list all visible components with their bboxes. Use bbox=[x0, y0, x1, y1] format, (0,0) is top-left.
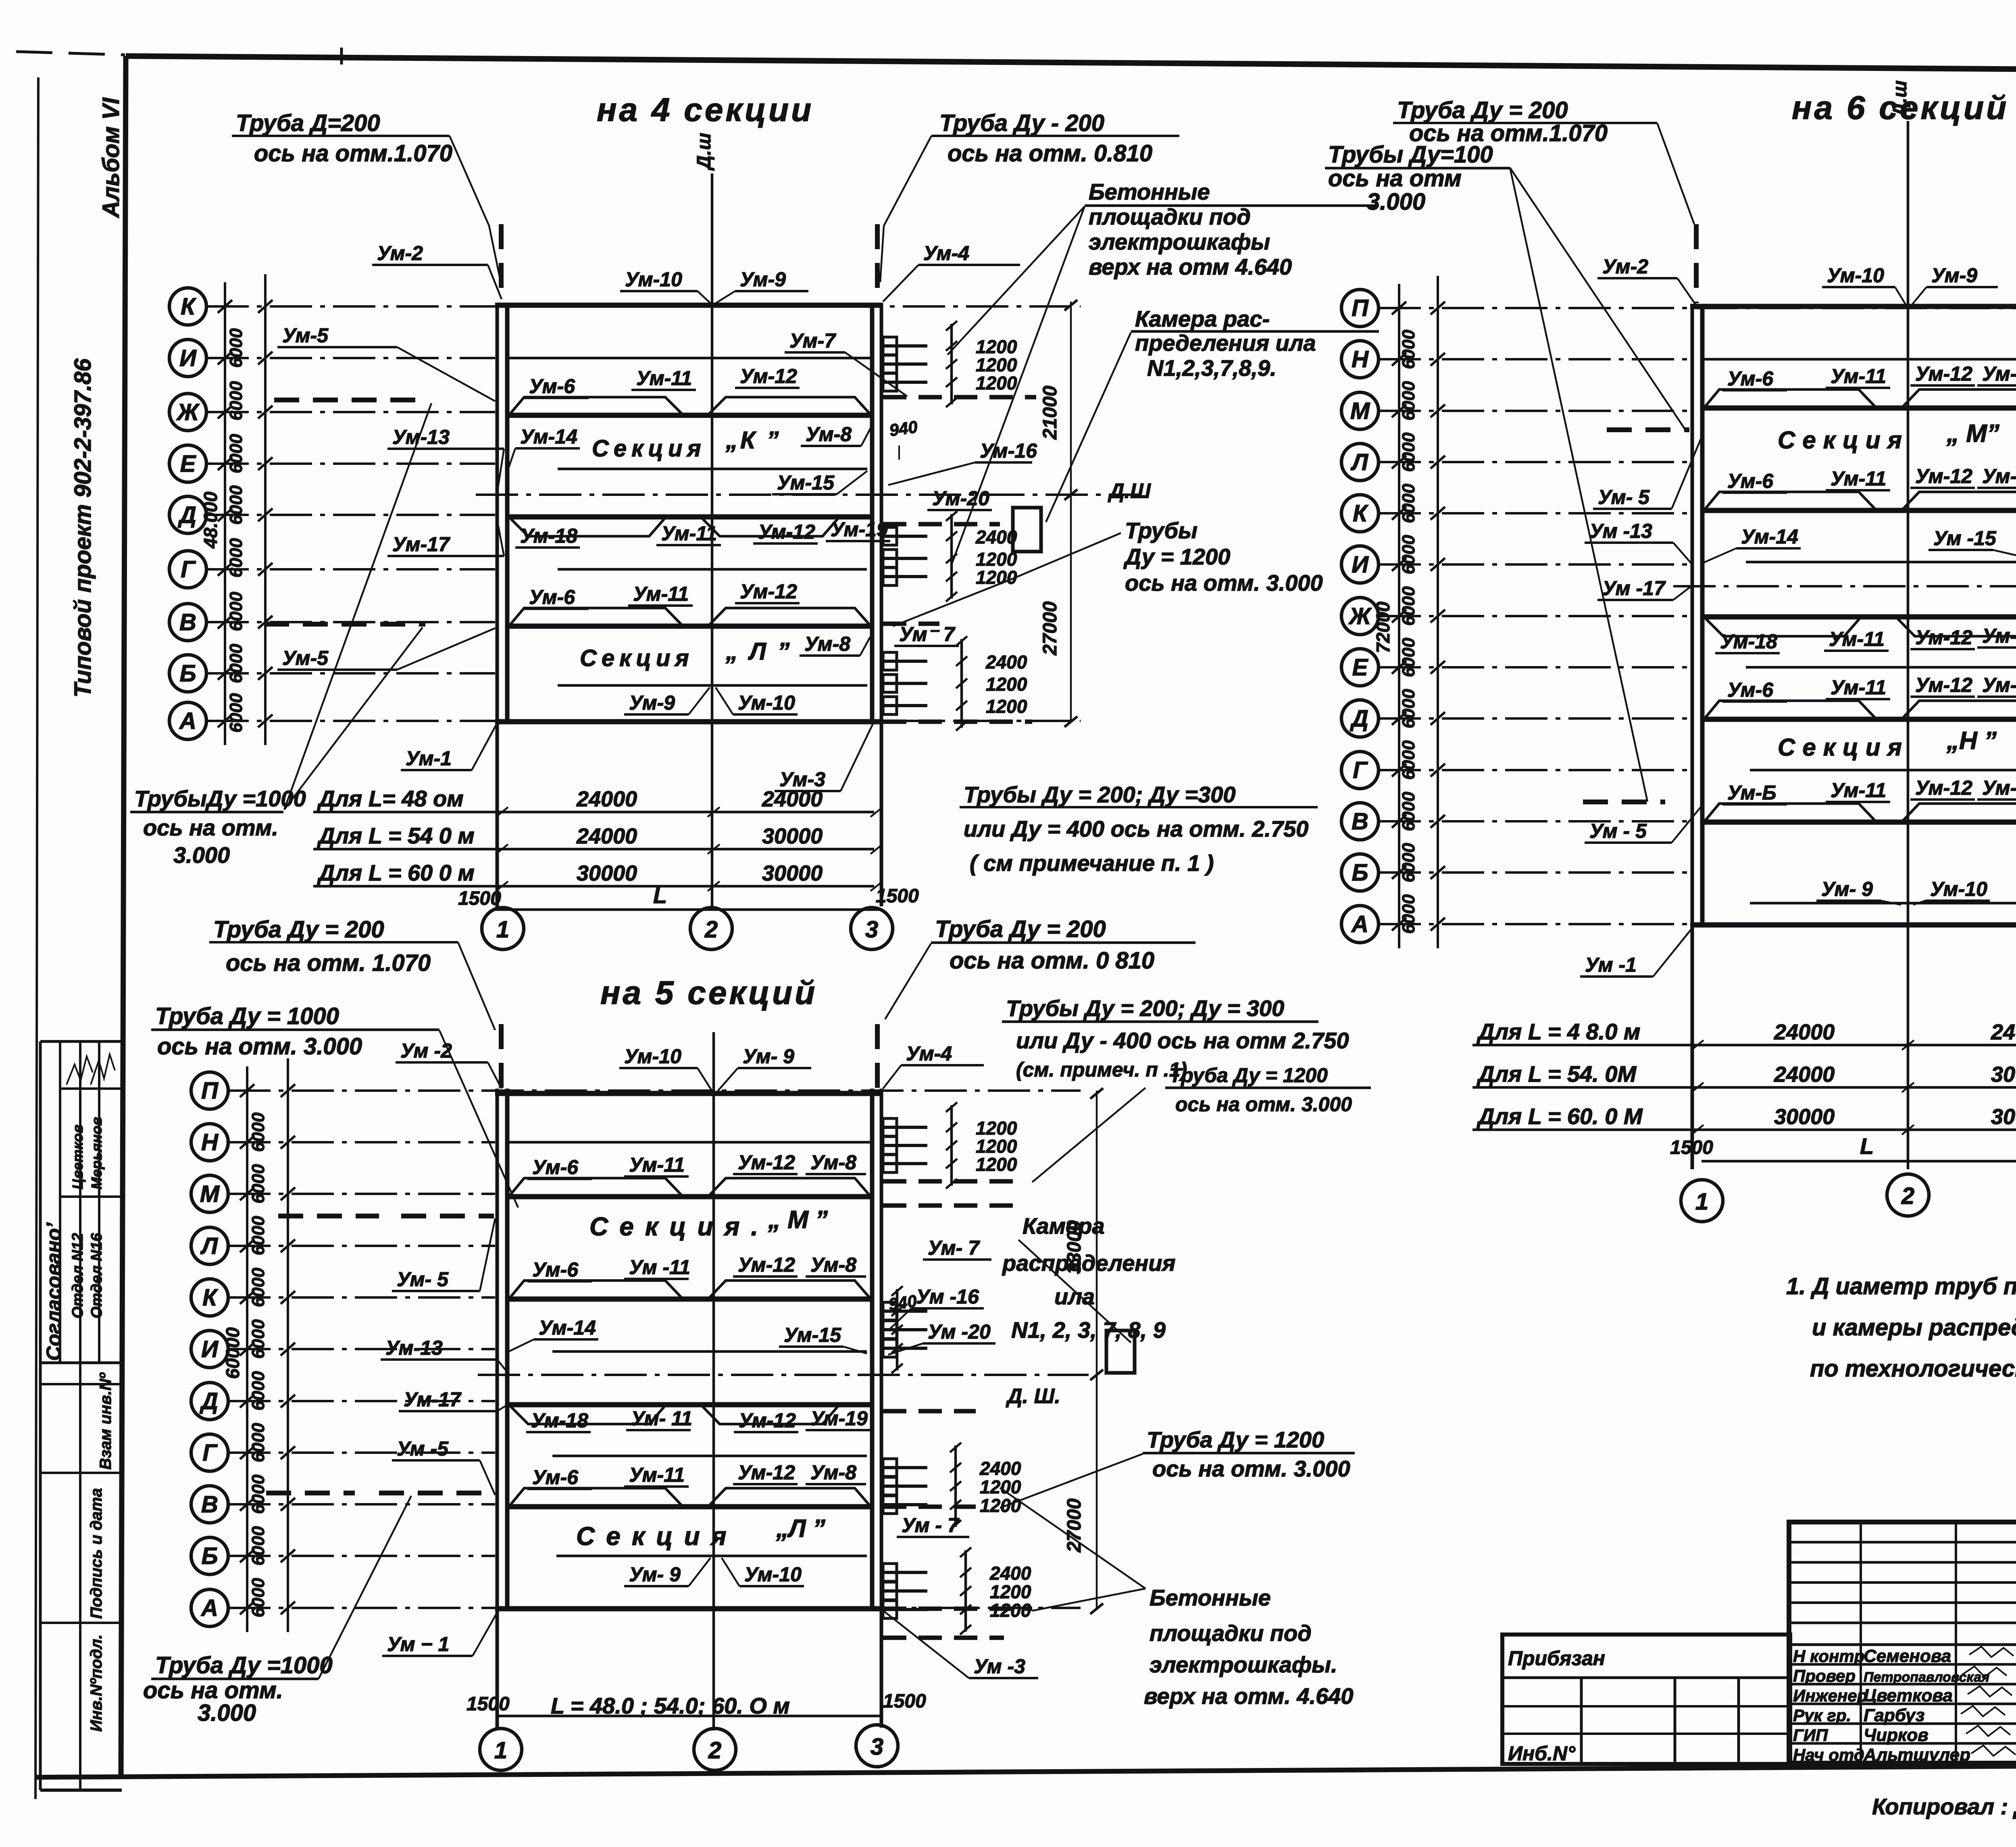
plan2 Ум-19 bbox=[1977, 625, 2016, 648]
plan1 Ум-19 bbox=[826, 518, 890, 541]
plan1 stubs mid bbox=[883, 511, 1017, 602]
plan1 Ум-7b bbox=[894, 623, 959, 646]
svg-text:6000: 6000 bbox=[248, 1474, 268, 1514]
svg-text:Ум-5: Ум-5 bbox=[282, 324, 329, 347]
plan3 axis row М bbox=[191, 1175, 495, 1212]
svg-text:и камеры распределения ил: и камеры распределения ила N 1 ÷ 12 опре… bbox=[1812, 1314, 2016, 1341]
svg-text:30000: 30000 bbox=[762, 824, 823, 848]
plan2 thin line Е bbox=[1746, 666, 2016, 669]
svg-text:Ум-8: Ум-8 bbox=[1982, 777, 2016, 799]
plan2 Ум-5b bbox=[1585, 803, 1704, 843]
svg-text:Провер: Провер bbox=[1793, 1666, 1856, 1685]
svg-text:1500: 1500 bbox=[876, 885, 919, 907]
plan1 interior line row И bbox=[507, 357, 872, 360]
plan2 axis row П bbox=[1341, 289, 2016, 327]
plan3 Ум-7b bbox=[897, 1514, 969, 1537]
plan1 Ум-14 bbox=[507, 425, 580, 472]
plan3 Ум-12 bbox=[733, 1151, 798, 1174]
svg-text:21000: 21000 bbox=[1039, 385, 1061, 440]
plan1 Труба Д=200 bbox=[232, 110, 501, 282]
plan3 wall row М bbox=[509, 1194, 872, 1199]
svg-text:6000: 6000 bbox=[248, 1319, 268, 1359]
plan3 Ум-5b bbox=[392, 1437, 495, 1495]
svg-text:L: L bbox=[1860, 1133, 1874, 1159]
svg-text:6000: 6000 bbox=[1399, 535, 1418, 574]
svg-text:Ум-10: Ум-10 bbox=[738, 691, 795, 714]
plan2 bottom wall bbox=[1690, 922, 2016, 928]
plan1 Ум-10t bbox=[620, 268, 710, 303]
plan1 Ум-11c bbox=[628, 583, 693, 606]
plan3 Труба Ду=200 right bbox=[885, 916, 1195, 1019]
plan3 Ум-8 bbox=[806, 1151, 866, 1174]
svg-text:60000: 60000 bbox=[222, 1327, 243, 1379]
svg-text:Бетонные: Бетонные bbox=[1089, 179, 1210, 204]
plan3 Ум-18 bbox=[526, 1409, 591, 1432]
svg-text:Ум-12: Ум-12 bbox=[1915, 362, 1972, 385]
plan1 axis row И bbox=[169, 339, 495, 377]
plan2 axis row Н bbox=[1341, 341, 1690, 378]
svg-text:или Ду - 400 ось на отм 2: или Ду - 400 ось на отм 2.750 bbox=[1016, 1028, 1349, 1053]
plan1 Ум-12b bbox=[753, 521, 818, 543]
plan3 Ум-8c bbox=[806, 1461, 866, 1484]
plan1 Ум-9 bbox=[624, 687, 710, 714]
plan3 axis row Н bbox=[191, 1124, 495, 1161]
plan2 Ум-12c bbox=[1910, 626, 1975, 649]
signature squiggles bbox=[67, 1056, 93, 1085]
svg-text:6000: 6000 bbox=[1399, 586, 1418, 626]
plan2 Ум-8d bbox=[1977, 777, 2016, 800]
svg-text:Цветков: Цветков bbox=[69, 1124, 86, 1189]
svg-text:Труба Д=200: Труба Д=200 bbox=[236, 110, 380, 136]
svg-text:Ум-18: Ум-18 bbox=[1720, 630, 1777, 653]
svg-text:Ум -16: Ум -16 bbox=[916, 1285, 979, 1308]
plan1 Бетонные площадки text bbox=[948, 179, 1379, 564]
plan3 dashed Ум-5 lower bbox=[379, 1491, 488, 1495]
svg-text:Н: Н bbox=[201, 1129, 219, 1156]
plan3 Ум-6 bbox=[527, 1156, 592, 1179]
plan3 stubs bot bbox=[883, 1547, 1031, 1635]
svg-text:Ум-2: Ум-2 bbox=[377, 242, 423, 264]
plan3 Ум-15 bbox=[779, 1324, 867, 1353]
svg-text:1500: 1500 bbox=[1670, 1137, 1713, 1158]
svg-text:Н контр: Н контр bbox=[1793, 1647, 1864, 1666]
svg-text:Альбом VI: Альбом VI bbox=[98, 97, 124, 219]
svg-text:Ум-19: Ум-19 bbox=[1982, 625, 2016, 647]
plan2 Ум-11e bbox=[1826, 779, 1890, 802]
plan2 Ум-6d bbox=[1722, 781, 1787, 804]
plan3 Ум-11d bbox=[624, 1464, 689, 1487]
svg-text:Ум-7: Ум-7 bbox=[789, 329, 836, 352]
svg-text:Секция.: Секция. bbox=[589, 1212, 769, 1241]
plan2 wall row Ж bbox=[1704, 614, 2016, 620]
svg-text:ось на отм: ось на отм bbox=[1328, 165, 1462, 192]
svg-text:Трубы Ду = 200; Ду =300: Трубы Ду = 200; Ду =300 bbox=[964, 782, 1236, 807]
svg-text:„ М”: „ М” bbox=[1946, 420, 1999, 448]
plan3 axis row К bbox=[191, 1279, 495, 1316]
svg-text:6000: 6000 bbox=[226, 485, 246, 525]
svg-text:Для L = 54. 0М: Для L = 54. 0М bbox=[1477, 1061, 1637, 1087]
svg-text:Ум-12: Ум-12 bbox=[738, 1461, 795, 1484]
svg-text:Ум-6: Ум-6 bbox=[532, 1466, 579, 1489]
tick on top border bbox=[340, 48, 343, 65]
svg-text:1500: 1500 bbox=[458, 888, 501, 909]
plan3 dashed risers bbox=[499, 1024, 504, 1089]
svg-text:Подпись и дата: Подпись и дата bbox=[87, 1488, 105, 1619]
svg-text:940: 940 bbox=[887, 1291, 918, 1314]
svg-text:L = 48.0 ; 54.0; 60. О м: L = 48.0 ; 54.0; 60. О м bbox=[551, 1693, 790, 1718]
svg-text:ось на отм. 3.000: ось на отм. 3.000 bbox=[1175, 1093, 1352, 1116]
svg-text:Ж: Ж bbox=[1348, 603, 1372, 629]
plan3 Ум-13 bbox=[381, 1337, 509, 1374]
svg-text:Инб.N°: Инб.N° bbox=[1508, 1742, 1576, 1765]
plan2 Ум-15 bbox=[1929, 527, 2016, 564]
plan2 axis row Б bbox=[1341, 854, 1690, 891]
plan3 axis row И bbox=[191, 1331, 495, 1368]
plan1 dashed risers above top wall bbox=[499, 224, 504, 302]
plan2 Ум-8c bbox=[1977, 674, 2016, 697]
svg-text:Ум-14: Ум-14 bbox=[1741, 525, 1798, 548]
svg-text:Петропавловская: Петропавловская bbox=[1864, 1670, 1989, 1685]
svg-text:Взам инв.Nº: Взам инв.Nº bbox=[97, 1372, 115, 1470]
plan1 bottom thin line bbox=[558, 684, 867, 687]
plan1 Труба Ду=200 right bbox=[880, 110, 1179, 282]
svg-text:Ум-12: Ум-12 bbox=[738, 1151, 795, 1174]
svg-text:1200: 1200 bbox=[976, 1154, 1017, 1175]
svg-text:Цветкова: Цветкова bbox=[1864, 1686, 1953, 1705]
plan1 axis row В bbox=[169, 604, 495, 641]
plan3 Ум-9 bbox=[624, 1558, 710, 1586]
svg-text:N1,2,3,7,8,9.: N1,2,3,7,8,9. bbox=[1147, 355, 1277, 381]
plan1 Ум-12 bbox=[735, 365, 800, 388]
svg-text:Ум- 5: Ум- 5 bbox=[397, 1268, 449, 1291]
plan3 Труба Ду=1200 upper text bbox=[1032, 1064, 1371, 1182]
plan1 wall axis1 bbox=[497, 303, 507, 909]
svg-text:Ум-20: Ум-20 bbox=[932, 487, 989, 510]
plan2 thin line И bbox=[1746, 561, 2016, 564]
plan1 Ум-4 bbox=[883, 242, 1020, 302]
cells Отдел N12/N16 bbox=[79, 1041, 81, 1363]
svg-text:Ду = 1200: Ду = 1200 bbox=[1123, 544, 1230, 569]
plan1 Ум-5b bbox=[277, 628, 495, 670]
plan2 Ум-5 bbox=[1593, 431, 1704, 509]
svg-text:1200: 1200 bbox=[980, 1476, 1021, 1497]
svg-text:Ум-16: Ум-16 bbox=[980, 439, 1037, 462]
plan1 камера box bbox=[1013, 508, 1041, 552]
plan3 Ум-11 bbox=[624, 1154, 689, 1176]
plan1 wall axis3 bbox=[872, 303, 881, 906]
plan2 thin line Б bbox=[1750, 902, 2016, 905]
svg-text:или Ду = 400 ось на отм. 2.75: или Ду = 400 ось на отм. 2.750 bbox=[964, 816, 1308, 841]
svg-text:Камера: Камера bbox=[1023, 1213, 1105, 1239]
svg-text:Ум-11: Ум-11 bbox=[1831, 467, 1886, 490]
svg-text:ось на отм.1.070: ось на отм.1.070 bbox=[254, 140, 452, 167]
cell Согласовано bbox=[59, 1041, 61, 1363]
svg-text:Ум -13: Ум -13 bbox=[1589, 520, 1652, 542]
svg-text:электрошкафы: электрошкафы bbox=[1089, 229, 1270, 254]
plan1 axis row Е bbox=[169, 445, 495, 482]
plan2 Ум-10b bbox=[1913, 878, 1990, 905]
plan2 Ум-11c bbox=[1824, 628, 1889, 651]
svg-text:6000: 6000 bbox=[1399, 329, 1418, 369]
svg-text:Ум-11: Ум-11 bbox=[636, 367, 692, 389]
svg-text:Ум -1: Ум -1 bbox=[1585, 954, 1637, 976]
svg-text:по технологическому заданию: по технологическому заданию. bbox=[1810, 1356, 2016, 1382]
svg-text:ГИП: ГИП bbox=[1793, 1726, 1828, 1745]
plan3 thin line И bbox=[552, 1350, 867, 1353]
plan2 Ум-6c bbox=[1722, 679, 1787, 702]
plan2 axis row К bbox=[1341, 495, 1690, 532]
plan1 Ум-17 bbox=[387, 520, 504, 556]
svg-text:Ум-11: Ум-11 bbox=[1831, 676, 1886, 699]
svg-text:Д.ш: Д.ш bbox=[694, 133, 715, 171]
svg-text:Прибязан: Прибязан bbox=[1508, 1647, 1605, 1670]
svg-text:электрошкафы.: электрошкафы. bbox=[1150, 1652, 1337, 1677]
plan2 Ум-2 bbox=[1597, 255, 1695, 304]
svg-text:6000: 6000 bbox=[248, 1578, 268, 1617]
plan2 top wall bbox=[1690, 304, 2016, 309]
svg-text:Б: Б bbox=[179, 660, 196, 687]
plan3 column circles bbox=[480, 1728, 522, 1770]
svg-text:Ум-6: Ум-6 bbox=[1727, 470, 1774, 492]
svg-text:3: 3 bbox=[871, 1734, 883, 1760]
svg-text:Д: Д bbox=[1350, 706, 1368, 732]
svg-text:Б: Б bbox=[1352, 860, 1368, 886]
svg-text:6000: 6000 bbox=[1399, 740, 1418, 780]
svg-text:Камера рас-: Камера рас- bbox=[1135, 306, 1270, 331]
plan2 dimension ladder bbox=[1372, 276, 1445, 948]
plan1 wall row В bbox=[509, 624, 872, 629]
plan3 axis row Л bbox=[191, 1227, 495, 1264]
svg-text:ось на отм. 3.000: ось на отм. 3.000 bbox=[1152, 1456, 1350, 1481]
svg-text:ось на отм. 1.070: ось на отм. 1.070 bbox=[226, 950, 431, 976]
svg-text:Ум − 1: Ум − 1 bbox=[387, 1633, 449, 1655]
svg-text:Для L = 60. 0 М: Для L = 60. 0 М bbox=[1477, 1104, 1643, 1129]
plan2 Ум-10t bbox=[1822, 264, 1906, 306]
plan3 Ум-20 bbox=[888, 1320, 996, 1355]
svg-text:ось на отм. 3.000: ось на отм. 3.000 bbox=[157, 1033, 362, 1060]
plan2 axis row Ж bbox=[1341, 598, 1690, 635]
svg-text:В: В bbox=[1352, 808, 1368, 835]
svg-text:940: 940 bbox=[888, 417, 919, 440]
plan1 Ум-7 bbox=[785, 329, 907, 396]
svg-text:Труба Ду =1000: Труба Ду =1000 bbox=[155, 1652, 333, 1678]
svg-text:6000: 6000 bbox=[226, 538, 246, 577]
svg-text:ось на отм. 0 810: ось на отм. 0 810 bbox=[950, 947, 1154, 974]
svg-text:Секция: Секция bbox=[576, 1522, 737, 1551]
svg-text:Инв.Nºподл.: Инв.Nºподл. bbox=[87, 1635, 105, 1732]
svg-text:Ум-12: Ум-12 bbox=[758, 521, 815, 543]
svg-text:Отдел N16: Отдел N16 bbox=[88, 1233, 105, 1318]
plan3 axis row П bbox=[191, 1072, 1081, 1109]
svg-text:Семенова: Семенова bbox=[1864, 1646, 1951, 1666]
plan2 Трубы Ду=100 left label bbox=[1325, 142, 1685, 802]
svg-text:1200: 1200 bbox=[990, 1581, 1031, 1602]
plan3 Ум-10 bbox=[722, 1558, 804, 1586]
svg-text:1: 1 bbox=[496, 916, 509, 943]
plan1 Ум-3 bbox=[775, 724, 873, 791]
plan1 top wall bbox=[495, 303, 883, 308]
plan3 wall row В bbox=[509, 1504, 872, 1510]
svg-text:6000: 6000 bbox=[248, 1268, 268, 1307]
svg-text:Г: Г bbox=[1353, 757, 1368, 783]
svg-text:Л: Л bbox=[1350, 449, 1368, 475]
plan2 Ум-13 bbox=[1585, 520, 1692, 564]
svg-text:А: А bbox=[1351, 911, 1368, 937]
svg-text:Ум-8: Ум-8 bbox=[806, 423, 852, 446]
svg-text:48.000: 48.000 bbox=[200, 491, 221, 549]
plan3 dim 33000/27000 bbox=[1064, 1088, 1103, 1614]
plan3 axis row Г bbox=[191, 1434, 495, 1471]
svg-text:Д: Д bbox=[177, 502, 196, 528]
plan2 Ум-1 bbox=[1580, 927, 1693, 977]
svg-text:Ум-8: Ум-8 bbox=[810, 1151, 856, 1174]
svg-text:Для L = 54 0 м: Для L = 54 0 м bbox=[317, 823, 475, 848]
svg-text:Ум-6: Ум-6 bbox=[529, 375, 575, 398]
svg-text:Ум-8: Ум-8 bbox=[1982, 362, 2016, 385]
svg-text:Ум- 9: Ум- 9 bbox=[743, 1045, 794, 1068]
plan1 Камера распределения text bbox=[1046, 306, 1379, 522]
plan3 Ум-7 bbox=[923, 1237, 991, 1260]
note text bbox=[1786, 1273, 2016, 1382]
svg-text:Ум -5: Ум -5 bbox=[397, 1437, 449, 1460]
title block main box bbox=[1789, 1522, 2016, 1763]
plan3 dashed stub walls bbox=[883, 1179, 1024, 1184]
plan1 dashed Ум-5 lower bbox=[264, 622, 425, 627]
plan3 dashed Ум-5 upper bbox=[401, 1214, 494, 1218]
plan2 wall axis1 bbox=[1692, 305, 1702, 1169]
svg-text:Ум- 7: Ум- 7 bbox=[928, 1237, 980, 1259]
svg-text:Д: Д bbox=[199, 1388, 218, 1414]
plan1 bottom dim table bbox=[313, 786, 919, 910]
svg-text:6000: 6000 bbox=[248, 1216, 268, 1255]
plan3 Ум-6c bbox=[527, 1466, 592, 1489]
plan3 Ум-2 bbox=[396, 1039, 502, 1089]
svg-text:1500: 1500 bbox=[883, 1691, 926, 1712]
plan3 Ум-8b bbox=[806, 1254, 866, 1276]
plan1 axis row Г bbox=[169, 551, 495, 588]
plan1 axis row Б bbox=[169, 655, 495, 692]
plan1 axis row К bbox=[169, 288, 1081, 325]
left outer thin line bbox=[35, 77, 38, 1799]
plan3 Ум-10t bbox=[619, 1045, 712, 1091]
svg-text:Ум-11: Ум-11 bbox=[633, 583, 689, 605]
svg-text:Мерьянов: Мерьянов bbox=[88, 1117, 105, 1189]
plan3 Ум-12d bbox=[733, 1461, 798, 1484]
svg-text:6000: 6000 bbox=[1399, 791, 1418, 831]
svg-text:Трубы Ду = 200; Ду = 300: Трубы Ду = 200; Ду = 300 bbox=[1006, 995, 1284, 1021]
title staff rows bbox=[1793, 1646, 2016, 1765]
plan1 Ум-11 bbox=[631, 367, 696, 390]
plan1 Ум-10 bbox=[716, 687, 798, 714]
plan1 Трубы Ду=1000 label bbox=[130, 786, 306, 868]
svg-text:Л: Л bbox=[200, 1233, 218, 1259]
svg-text:Ум-11: Ум-11 bbox=[629, 1154, 685, 1176]
svg-text:Секция: Секция bbox=[580, 645, 694, 671]
plan3 Труба Ду=1200 lower text bbox=[1000, 1427, 1355, 1508]
svg-text:3.000: 3.000 bbox=[198, 1700, 256, 1726]
svg-text:Ум-12: Ум-12 bbox=[1915, 674, 1972, 696]
svg-text:площадки под: площадки под bbox=[1089, 204, 1251, 229]
plan1 Трубы Ду=1200 text bbox=[893, 518, 1323, 626]
svg-text:30000: 30000 bbox=[1991, 1062, 2016, 1087]
svg-text:Г: Г bbox=[202, 1440, 218, 1466]
svg-text:А: А bbox=[200, 1595, 218, 1621]
plan2 wall row М bbox=[1704, 406, 2016, 411]
svg-text:6000: 6000 bbox=[1399, 637, 1418, 677]
svg-text:6000: 6000 bbox=[226, 328, 246, 368]
plan3 stubs top bbox=[883, 1102, 1017, 1189]
top border bbox=[126, 56, 2016, 73]
svg-text:Бетонные: Бетонные bbox=[1150, 1585, 1271, 1610]
svg-text:Ум⁻ 7: Ум⁻ 7 bbox=[899, 623, 956, 646]
svg-text:6000: 6000 bbox=[248, 1423, 268, 1462]
cell Инв N подл bbox=[40, 1622, 122, 1624]
svg-text:К: К bbox=[1353, 500, 1368, 527]
svg-text:3.000: 3.000 bbox=[1367, 189, 1425, 215]
svg-text:Ум - 7: Ум - 7 bbox=[902, 1514, 960, 1537]
svg-text:Ум-12: Ум-12 bbox=[1915, 626, 1972, 649]
svg-text:Е: Е bbox=[1352, 654, 1369, 681]
plan2 axis row Д bbox=[1341, 700, 1690, 737]
plan2 Ум-11 bbox=[1826, 365, 1890, 388]
plan3 axis row Б bbox=[191, 1537, 495, 1574]
plan2 centre axis line bbox=[1907, 121, 1910, 1169]
plan1 Ум-5 bbox=[277, 324, 495, 401]
svg-text:Ум-8: Ум-8 bbox=[804, 633, 850, 655]
plan3 Ум-12c bbox=[734, 1409, 798, 1432]
plan3 wall row Д bbox=[509, 1402, 872, 1408]
plan1 mid thin line upper bbox=[558, 468, 867, 471]
svg-text:Ум-9: Ум-9 bbox=[740, 268, 786, 291]
svg-text:Ум-Б: Ум-Б bbox=[1727, 781, 1776, 804]
plan1 wall row Д bbox=[509, 514, 872, 520]
svg-text:„К ”: „К ” bbox=[725, 427, 781, 454]
plan2 column circles bbox=[1681, 1180, 1723, 1222]
svg-text:Ум-6: Ум-6 bbox=[532, 1258, 579, 1281]
plan3 Ум-4 bbox=[883, 1042, 984, 1089]
svg-text:площадки под: площадки под bbox=[1150, 1620, 1312, 1646]
svg-text:Ум-11: Ум-11 bbox=[1829, 628, 1885, 650]
svg-text:1: 1 bbox=[1695, 1189, 1708, 1215]
svg-text:И: И bbox=[201, 1336, 219, 1362]
bottom border bbox=[36, 1763, 2016, 1777]
plan1 Ум-2 bbox=[372, 242, 502, 299]
svg-text:Ум-13: Ум-13 bbox=[385, 1337, 443, 1359]
svg-text:Ум -11: Ум -11 bbox=[629, 1256, 690, 1279]
svg-text:6000: 6000 bbox=[226, 693, 246, 733]
svg-text:Ум-13: Ум-13 bbox=[392, 426, 450, 448]
svg-text:Ум-17: Ум-17 bbox=[404, 1388, 462, 1411]
plan2 axis row Е bbox=[1341, 649, 1690, 686]
svg-text:ось на отм. 3.000: ось на отм. 3.000 bbox=[1125, 570, 1323, 596]
svg-text:Ум-19: Ум-19 bbox=[810, 1407, 868, 1430]
title block left extension bbox=[1502, 1635, 1790, 1765]
svg-text:И: И bbox=[179, 345, 197, 371]
plan1 Ум-8b bbox=[800, 633, 870, 656]
plan3 Ум-5 bbox=[392, 1218, 495, 1291]
svg-text:Ум-5: Ум-5 bbox=[282, 647, 329, 669]
plan1 axis row Д bbox=[169, 496, 495, 533]
plan1 Ум-1 bbox=[401, 724, 497, 770]
plan1 dim 21000/27000 bbox=[1039, 300, 1077, 727]
plan3 thin line Г bbox=[552, 1455, 867, 1458]
svg-text:1200: 1200 bbox=[986, 674, 1027, 695]
svg-text:В: В bbox=[201, 1491, 218, 1518]
svg-text:6000: 6000 bbox=[248, 1371, 268, 1410]
svg-text:2400: 2400 bbox=[985, 652, 1027, 673]
svg-text:Ум-8: Ум-8 bbox=[810, 1254, 856, 1276]
plan2 Ум-9t bbox=[1911, 264, 1998, 306]
